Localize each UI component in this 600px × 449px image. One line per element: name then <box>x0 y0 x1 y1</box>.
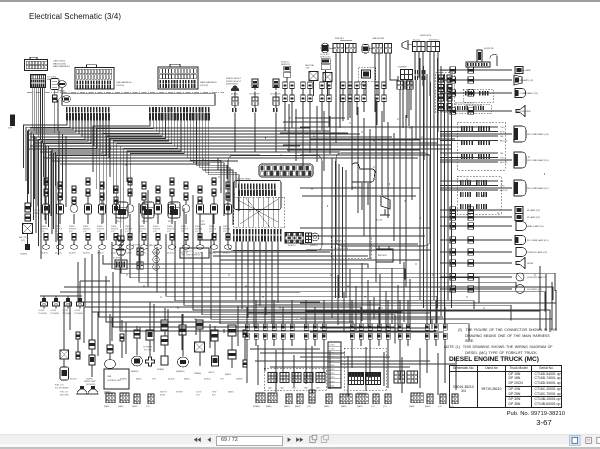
svg-text:HEAD LAMP (R,L): HEAD LAMP (R,L) <box>527 225 544 228</box>
svg-text:BACK-UP: BACK-UP <box>500 189 508 192</box>
component column LC11 <box>181 182 190 255</box>
connector CN1 (2x7 pin, top-left) <box>25 57 48 70</box>
output device STROBE LAMP y70 <box>440 67 531 76</box>
svg-text:(BLACK): (BLACK) <box>167 252 174 255</box>
labels under controller grids <box>104 405 150 408</box>
svg-text:(BRAKE): (BRAKE) <box>253 405 260 408</box>
svg-text:(BRAKE): (BRAKE) <box>131 370 139 373</box>
svg-text:TAIL: TAIL <box>500 180 503 183</box>
svg-text:(OP): (OP) <box>97 231 101 233</box>
svg-text:RR COMBI LAMP (R,L): RR COMBI LAMP (R,L) <box>527 187 549 190</box>
svg-text:BACK BUZZER: BACK BUZZER <box>516 110 531 113</box>
component column LC12 <box>195 186 204 255</box>
svg-text:RR COMBI LAMP (L,R): RR COMBI LAMP (L,R) <box>516 92 538 95</box>
component column LC13 <box>209 178 218 255</box>
dashed box fuse group <box>344 348 386 395</box>
svg-text:SPARE: SPARE <box>167 225 173 228</box>
connector pair rows mid area <box>283 82 386 131</box>
svg-text:(OP): (OP) <box>516 73 521 75</box>
svg-text:M CONN: M CONN <box>133 245 141 247</box>
dashed harness box right upper <box>463 89 493 107</box>
next page button <box>288 437 291 442</box>
svg-text:BACK-UP: BACK-UP <box>500 140 508 143</box>
svg-text:SPARE: SPARE <box>83 225 89 228</box>
output device WORKING BEACON y277 <box>440 273 547 281</box>
component column LC5 <box>97 182 106 255</box>
svg-text:FR COMBI LAMP (R,L): FR COMBI LAMP (R,L) <box>527 239 549 242</box>
dropdown caret in page box <box>276 439 279 441</box>
svg-text:RELAY: RELAY <box>168 220 175 223</box>
switch KEY SW <box>323 73 332 97</box>
short horizontal links above band <box>213 252 420 260</box>
svg-text:FUEL CUT: FUEL CUT <box>60 392 68 394</box>
component F1 black box left edge <box>8 115 15 130</box>
page number <box>501 418 587 427</box>
svg-text:(MAST): (MAST) <box>184 378 190 381</box>
accel pedal symbol <box>376 196 390 222</box>
terminal strip legend <box>328 342 341 388</box>
dashed distribution box under meter panel <box>234 197 285 227</box>
svg-text:C-GRN: C-GRN <box>329 385 335 387</box>
svg-text:REACH SELECT: REACH SELECT <box>226 77 242 80</box>
wire verticals pair rows to grids <box>247 346 445 388</box>
component column LC1 <box>41 178 50 255</box>
dashed harness box combo lamps <box>457 122 505 170</box>
component column LC2 <box>55 182 64 255</box>
svg-text:(OP): (OP) <box>307 406 311 408</box>
svg-text:W/TEMP: W/TEMP <box>176 392 184 394</box>
svg-text:(OP): (OP) <box>153 231 157 233</box>
extra slim columns bottom left <box>76 330 247 367</box>
svg-text:MAIN (CN56): MAIN (CN56) <box>53 62 66 65</box>
svg-text:CONNECT 2: CONNECT 2 <box>334 241 345 243</box>
wire K1 to connector <box>54 90 56 96</box>
component column LC6 <box>111 186 120 255</box>
svg-text:CAB: CAB <box>280 387 284 390</box>
bus bar (large white rectangle) <box>62 94 215 106</box>
svg-text:SEAT SW: SEAT SW <box>352 186 361 189</box>
svg-text:BACK-UP: BACK-UP <box>500 161 508 164</box>
wires from CAB U/LAMP assembly <box>375 53 398 112</box>
pin grid black connector <box>285 233 304 248</box>
svg-text:(BLACK): (BLACK) <box>55 252 62 255</box>
wire verticals bottom center <box>247 300 445 324</box>
svg-text:CAB (CN56): CAB (CN56) <box>53 60 65 63</box>
right edge verticals turning down <box>540 266 556 330</box>
component column LC3 <box>69 186 78 255</box>
component column x137 <box>131 330 143 373</box>
svg-text:HORN SW: HORN SW <box>484 48 494 50</box>
vertical drops mid right x330-415 <box>332 258 410 333</box>
wire batt rly down <box>27 234 29 245</box>
svg-text:SWITCH: SWITCH <box>160 392 167 394</box>
right toolbar icon 2 <box>586 437 592 443</box>
svg-text:(OP): (OP) <box>21 240 25 242</box>
svg-text:T/SIG: T/SIG <box>500 158 505 160</box>
svg-text:(MAST): (MAST) <box>225 373 232 376</box>
svg-text:(OP): (OP) <box>167 231 171 233</box>
svg-text:(OP): (OP) <box>209 231 213 233</box>
component NO ACCT LAMP stack <box>281 61 291 83</box>
mesh junction dots upper right <box>289 117 447 156</box>
svg-text:(MAIN): (MAIN) <box>324 405 330 408</box>
svg-text:RELAY: RELAY <box>160 393 166 396</box>
radio dashed box <box>359 68 376 97</box>
component column x200 <box>194 320 205 375</box>
svg-text:RR COMBI LAMP (L,R): RR COMBI LAMP (L,R) <box>527 133 549 136</box>
svg-text:(BLACK): (BLACK) <box>204 378 211 381</box>
label OT OIL TEMP <box>34 210 44 215</box>
fuse box assembly DESK BOX <box>402 35 440 52</box>
component antenna base <box>466 50 490 67</box>
component column x183 <box>176 325 189 373</box>
sensor S3 column <box>270 79 281 152</box>
round connector white <box>310 233 319 247</box>
svg-text:(OP): (OP) <box>125 231 129 233</box>
svg-text:BATTERY: BATTERY <box>378 254 388 257</box>
enclosure outline seat area <box>336 153 430 246</box>
wire bundle from CN2 down <box>32 87 44 146</box>
last page button <box>296 437 303 442</box>
svg-text:(BRAKE): (BRAKE) <box>120 378 127 381</box>
svg-text:(SHAKER): (SHAKER) <box>176 370 185 373</box>
component column LC9 <box>153 186 162 255</box>
component column LC4 <box>83 178 92 255</box>
svg-text:(MAST): (MAST) <box>295 405 301 408</box>
svg-text:MAIN HARNESS: MAIN HARNESS <box>200 81 217 84</box>
mast connector column x140 <box>133 245 143 270</box>
pin groups in lower combo box <box>460 180 487 209</box>
svg-text:SOL (W/LEVER): SOL (W/LEVER) <box>55 387 69 389</box>
svg-text:(OP): (OP) <box>55 231 59 233</box>
junction dots on bus band <box>94 130 545 320</box>
wire bundle left of seat <box>332 158 346 298</box>
relay cylinders center trio <box>116 202 180 223</box>
svg-text:SPARE: SPARE <box>139 225 145 228</box>
svg-text:LEVEL (OP): LEVEL (OP) <box>320 57 331 59</box>
T/M dashed harness box <box>436 69 455 113</box>
svg-text:ODOMETER: ODOMETER <box>270 94 281 96</box>
operator seat symbol <box>352 163 375 189</box>
svg-text:RLY (OP): RLY (OP) <box>144 349 152 351</box>
schematic reference table <box>449 365 562 408</box>
svg-text:W LAMP (OP): W LAMP (OP) <box>527 216 540 219</box>
output device HEAD LAMP (R,L) y226 <box>440 222 544 231</box>
connector group pins under bus right <box>149 107 210 121</box>
svg-text:CAB: CAB <box>304 387 308 390</box>
svg-text:(SPARE): (SPARE) <box>86 378 93 381</box>
label CN101 <box>116 81 132 87</box>
connector below K1 <box>53 95 58 102</box>
vertical drops below meter panel <box>236 242 278 327</box>
svg-text:LAMP(OP): LAMP(OP) <box>281 63 291 66</box>
output device BACK BUZZER y111 <box>440 106 531 117</box>
svg-text:CAB U/LWR: CAB U/LWR <box>372 37 384 40</box>
svg-text:LICENCE LAMP (OP): LICENCE LAMP (OP) <box>527 251 547 254</box>
svg-text:(W/LEVER): (W/LEVER) <box>60 394 69 396</box>
horizontal distribution lines upper band <box>27 128 452 164</box>
svg-text:SPARE: SPARE <box>41 225 47 228</box>
svg-text:CONNECT 2: CONNECT 2 <box>182 251 192 253</box>
connector group pins under bus left <box>66 107 110 121</box>
horizontal links bottom center <box>250 349 455 367</box>
svg-text:C-GRN: C-GRN <box>329 377 335 379</box>
svg-text:(BLACK): (BLACK) <box>125 252 132 255</box>
output device RR COMBI LAMP (R,L) y188 <box>440 180 549 196</box>
sensor S2 column <box>249 79 260 152</box>
svg-text:FUEL CUT: FUEL CUT <box>55 385 65 387</box>
mesh horizontals upper right <box>280 118 458 158</box>
glow plugs row <box>39 281 84 315</box>
svg-text:SPARE: SPARE <box>153 225 159 228</box>
bottom center connector pair rows <box>245 324 447 346</box>
bell dome components row <box>77 386 98 394</box>
wiper relay column x150 with cross symbol <box>143 330 155 366</box>
svg-text:BACK BUZZER CONTR: BACK BUZZER CONTR <box>455 102 474 105</box>
vertical drops from distribution band <box>28 131 67 234</box>
svg-text:SW: SW <box>306 68 309 70</box>
svg-text:C-GRN: C-GRN <box>329 344 335 346</box>
svg-text:SPARE: SPARE <box>55 225 61 228</box>
svg-text:T/SIG: T/SIG <box>500 127 505 129</box>
svg-text:FUSE: FUSE <box>212 392 217 394</box>
svg-text:(OP): (OP) <box>139 231 143 233</box>
svg-text:(OP): (OP) <box>8 128 13 130</box>
svg-text:(BLACK): (BLACK) <box>70 378 77 381</box>
wire fan from right pin group (nested L-routing) <box>93 121 239 246</box>
wire fan from left pin group (nested L-routing) <box>24 121 110 260</box>
component column x215 <box>208 330 219 374</box>
svg-text:(OP): (OP) <box>195 231 199 233</box>
svg-text:C-GRN: C-GRN <box>329 373 335 375</box>
svg-text:(BLACK): (BLACK) <box>69 252 76 255</box>
svg-text:(W/LEVER): (W/LEVER) <box>86 384 96 386</box>
wire left edge main drop <box>27 131 29 203</box>
svg-text:(SPARE): (SPARE) <box>57 90 65 93</box>
svg-text:(CN102): (CN102) <box>200 85 209 87</box>
svg-text:(WHITE): (WHITE) <box>310 245 318 247</box>
svg-text:(BLACK): (BLACK) <box>41 252 48 255</box>
output device LICENCE LAMP (OP) y252 <box>440 248 547 257</box>
connector rows under dashed box <box>233 229 282 242</box>
output device FR WIPER (OP) y289 <box>440 285 542 294</box>
svg-text:(SPARE): (SPARE) <box>20 253 28 256</box>
wire K1 chain down <box>54 102 56 133</box>
svg-text:(MAIN): (MAIN) <box>266 405 272 408</box>
switch NEUTRAL SW <box>305 64 318 96</box>
svg-text:CAB: CAB <box>316 387 320 390</box>
svg-text:SPARE: SPARE <box>111 225 117 228</box>
box CONNECT 2 metal wire harness <box>180 248 209 258</box>
component column LC10 <box>167 178 176 255</box>
connector CN102 (main harness) <box>158 64 198 89</box>
svg-text:C-GRN: C-GRN <box>329 349 335 351</box>
component oval on bus left end <box>63 96 71 103</box>
output device W LAMP (OP) y210 <box>440 207 540 214</box>
switch HORN SW <box>484 48 498 66</box>
svg-text:STROBE LAMP: STROBE LAMP <box>516 69 531 72</box>
svg-text:C-GRN: C-GRN <box>329 357 335 359</box>
svg-text:BOX: BOX <box>212 394 216 396</box>
wires from BZR RLY <box>336 53 352 143</box>
page number text in box <box>216 436 283 446</box>
svg-text:(MAIN): (MAIN) <box>341 405 347 408</box>
svg-text:NEUTRAL: NEUTRAL <box>305 64 315 67</box>
right toolbar icon 3 <box>597 437 600 443</box>
bottom scrollbar strip <box>0 444 600 446</box>
svg-text:SPARE: SPARE <box>69 225 75 228</box>
component battery terminal <box>20 244 30 256</box>
battery symbol <box>376 247 393 263</box>
relay assembly CAB U/LAMP <box>362 37 392 53</box>
label meter panel <box>237 178 252 181</box>
svg-text:(BLACK): (BLACK) <box>168 378 175 381</box>
svg-text:HRN: HRN <box>201 224 206 226</box>
svg-text:(MAST): (MAST) <box>284 405 290 408</box>
svg-text:(OP): (OP) <box>220 379 224 381</box>
svg-text:HORN: HORN <box>527 263 534 265</box>
wire verticals mid columns x288-330 <box>289 104 330 171</box>
vertical drops from left lower horizontals <box>70 302 238 356</box>
svg-text:BATT RLY: BATT RLY <box>19 236 28 239</box>
svg-text:(CN101): (CN101) <box>116 85 125 87</box>
svg-text:MTL WIRE HARNESS: MTL WIRE HARNESS <box>182 254 201 257</box>
sensor S1 column <box>226 77 242 152</box>
svg-text:(MAIN): (MAIN) <box>409 405 415 408</box>
pin block x398 group <box>397 81 413 126</box>
svg-text:C-GRN: C-GRN <box>329 353 335 355</box>
output device W LAMP (OP) y217 <box>440 214 540 221</box>
connector CN101 (cab harness) <box>75 65 114 89</box>
svg-text:SPEED SELECT: SPEED SELECT <box>226 81 242 83</box>
component column LC7 <box>125 178 134 255</box>
PDF toolbar <box>0 434 600 448</box>
svg-text:OT OIL: OT OIL <box>34 210 40 212</box>
svg-text:STOP: STOP <box>500 132 505 134</box>
component column x110 <box>104 345 116 395</box>
nested bus band wires <box>103 190 555 344</box>
svg-text:GLOW: GLOW <box>51 310 57 312</box>
connector CN2 (hatched pin block) <box>31 75 46 88</box>
svg-text:T&T: T&T <box>201 221 205 223</box>
svg-text:CHECK: CHECK <box>208 372 215 374</box>
svg-text:(MAST): (MAST) <box>132 405 138 408</box>
connector grids under controller <box>106 393 154 404</box>
svg-text:T/F WIPER: T/F WIPER <box>143 347 153 349</box>
svg-text:SPARE: SPARE <box>223 225 229 228</box>
svg-text:(OP): (OP) <box>41 231 45 233</box>
bottom row connector grids <box>256 390 458 404</box>
output device FR COMBI LAMP (R,L) y240 <box>440 236 549 245</box>
output device BACK LAMP (L,R) y80 <box>440 75 533 85</box>
table header title <box>449 356 539 363</box>
output device HORN y263 <box>440 258 534 269</box>
svg-text:BZR RLY: BZR RLY <box>335 38 345 40</box>
svg-text:(OP): (OP) <box>438 406 442 408</box>
label CN1 harness <box>53 60 70 69</box>
svg-text:TEMP (OP): TEMP (OP) <box>34 213 44 215</box>
svg-text:(OP): (OP) <box>383 406 387 408</box>
hatched connector x415 <box>415 70 426 160</box>
svg-text:(MAIN): (MAIN) <box>118 405 124 408</box>
svg-text:ODOMETER: ODOMETER <box>249 94 260 96</box>
vertical drops bottom left <box>64 302 215 350</box>
solenoid FUEL CUT SOL <box>55 367 69 389</box>
svg-text:GLOW: GLOW <box>75 310 81 312</box>
component column LC14 <box>223 182 232 255</box>
svg-text:T/M HARNESS: T/M HARNESS <box>437 69 450 72</box>
svg-text:C-GRN: C-GRN <box>329 369 335 371</box>
svg-text:ACCEL: ACCEL <box>376 219 384 222</box>
pin groups in combo dashed box <box>461 126 490 159</box>
extra verticals bottom center <box>258 345 456 396</box>
wire H1 down <box>58 88 62 132</box>
svg-text:(OP): (OP) <box>146 406 150 408</box>
svg-text:(MAST): (MAST) <box>357 405 363 408</box>
component column x232 <box>225 325 236 376</box>
svg-text:TAIL: TAIL <box>500 135 503 138</box>
wire seat down <box>362 183 368 210</box>
svg-text:SPARE: SPARE <box>97 225 103 228</box>
svg-text:T/SIG: T/SIG <box>500 186 505 188</box>
relay assembly BZR RLY <box>321 38 356 53</box>
svg-text:(KM/H-MPH): (KM/H-MPH) <box>226 84 238 86</box>
svg-text:(SPARE): (SPARE) <box>194 372 202 375</box>
dashed box cab connectors <box>264 368 326 390</box>
label CN2 <box>47 77 56 82</box>
svg-text:(MAIN): (MAIN) <box>136 378 142 381</box>
svg-text:DESK BOX: DESK BOX <box>420 35 432 37</box>
wires from DESK BOX <box>415 52 438 132</box>
svg-text:(OP): (OP) <box>181 231 185 233</box>
component column x165 <box>157 320 168 371</box>
page view icon 2 <box>321 435 328 442</box>
vertical trunk wires right side <box>352 58 452 324</box>
svg-text:METER PANEL: METER PANEL <box>237 178 252 181</box>
svg-text:(OP): (OP) <box>371 406 375 408</box>
meter panel connector <box>259 164 313 177</box>
bus band left extension wires <box>60 281 300 292</box>
cigarette lighter tower <box>113 236 127 269</box>
right toolbar icon selected <box>570 435 581 445</box>
dash-dot boundary line <box>27 92 224 94</box>
svg-text:(MAST): (MAST) <box>228 391 234 394</box>
svg-text:(SPARE): (SPARE) <box>157 368 165 371</box>
svg-text:C-GRN: C-GRN <box>329 381 335 383</box>
svg-text:WORKING BEACON: WORKING BEACON <box>527 276 547 279</box>
svg-text:SPARE: SPARE <box>125 225 131 228</box>
bottom left column labels row <box>60 378 243 397</box>
first page button <box>194 437 201 442</box>
component COOL ACT LEVEL <box>320 53 331 82</box>
svg-text:(BANDS): (BANDS) <box>104 391 111 394</box>
svg-text:MAIN HARNESS: MAIN HARNESS <box>53 65 70 68</box>
svg-text:TAIL: TAIL <box>500 152 503 155</box>
note text block <box>444 328 572 356</box>
svg-text:CAB HARNESS: CAB HARNESS <box>116 81 132 84</box>
svg-text:FLASHER: FLASHER <box>398 66 407 69</box>
relay K1 key switch <box>51 79 60 90</box>
output device RR COMBI LAMP (L,R) y93 <box>440 89 538 98</box>
sensor WATER TEMP column <box>84 340 97 386</box>
svg-text:(OP): (OP) <box>152 379 156 381</box>
prev page button <box>207 437 210 442</box>
page view icon 1 <box>310 435 317 442</box>
pin grids right of fuse group <box>394 371 418 383</box>
svg-text:RR COMBI LAMP (R,L): RR COMBI LAMP (R,L) <box>527 159 549 162</box>
dashed box CONNECT 2 right <box>331 236 371 258</box>
svg-text:(MAIN): (MAIN) <box>104 405 110 408</box>
